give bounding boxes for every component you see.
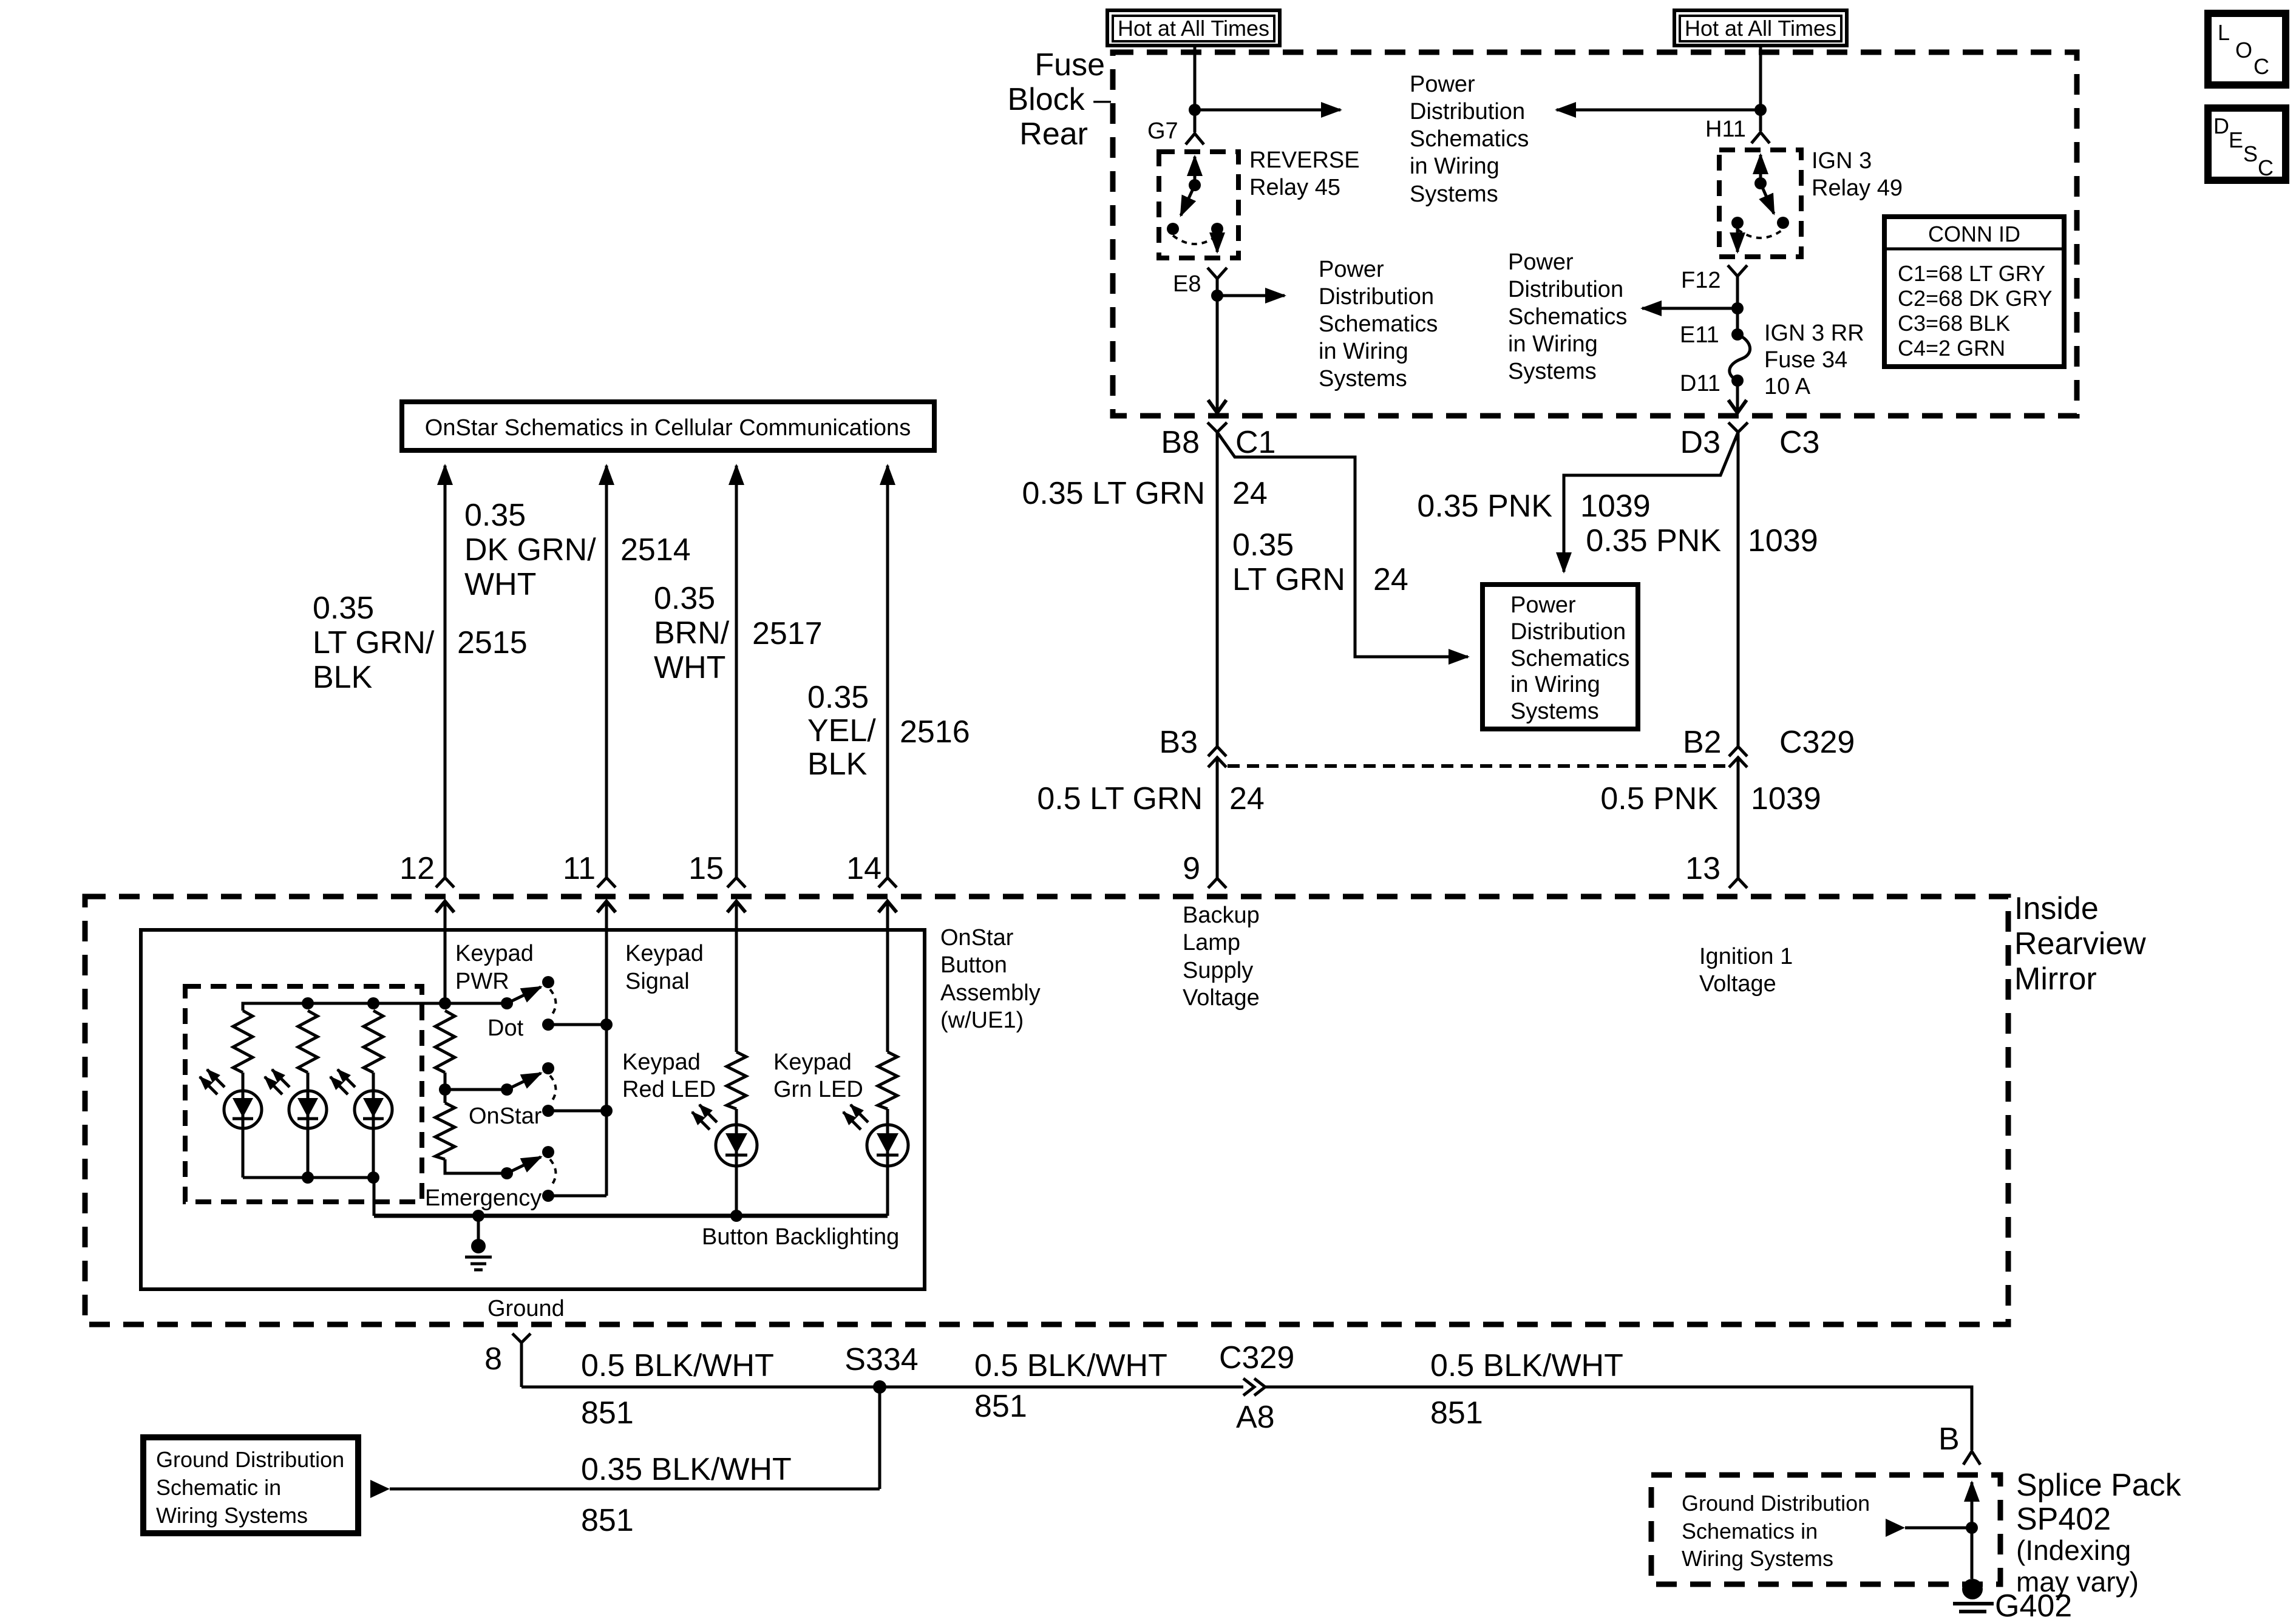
connector B (1963, 1451, 1980, 1465)
svg-text:10 A: 10 A (1764, 374, 1811, 399)
svg-text:Systems: Systems (1410, 181, 1498, 207)
svg-text:Inside: Inside (2014, 891, 2099, 926)
svg-text:G402: G402 (1995, 1588, 2072, 1617)
svg-text:15: 15 (688, 851, 724, 886)
svg-text:2514: 2514 (620, 532, 691, 568)
resistor (backlight LED 1) (233, 1011, 253, 1073)
wire label 0.35 BLK/WHT 851 (581, 1452, 792, 1538)
Backup Lamp Supply Voltage label (1183, 903, 1260, 1011)
switch Emergency: arm (507, 1157, 541, 1173)
Splice Pack SP402 dashed box (1651, 1475, 2000, 1584)
Power Distribution Schematics in Wiring Systems (below E8 arrow) (1319, 257, 1438, 392)
svg-text:1039: 1039 (1580, 489, 1651, 524)
svg-text:0.35: 0.35 (654, 581, 715, 616)
svg-text:BLK: BLK (313, 660, 373, 695)
svg-text:Block –: Block – (1007, 82, 1111, 117)
junction at E8 (1211, 290, 1223, 302)
svg-text:Wiring Systems: Wiring Systems (156, 1503, 308, 1528)
connector B3 (1208, 747, 1226, 767)
svg-text:OnStar: OnStar (469, 1103, 542, 1129)
wire label 0.35 PNK 1039 (D3 branch) (1417, 489, 1650, 524)
svg-text:1039: 1039 (1748, 523, 1818, 558)
switch Emergency: dashed throw arc (550, 1159, 556, 1187)
svg-text:0.35 PNK: 0.35 PNK (1586, 523, 1721, 558)
svg-text:Distribution: Distribution (1510, 619, 1626, 645)
junction in splice pack (1966, 1522, 1978, 1534)
svg-text:Power: Power (1508, 249, 1574, 275)
relay 49 dashed throw arc (1737, 229, 1783, 238)
wire: left feed from Hot at All Times (1194, 46, 1197, 132)
wire to OnStar tap (444, 1073, 447, 1103)
svg-text:0.5 BLK/WHT: 0.5 BLK/WHT (581, 1348, 774, 1383)
svg-text:YEL/: YEL/ (807, 713, 876, 748)
svg-text:Fuse: Fuse (1034, 47, 1105, 83)
svg-text:851: 851 (581, 1503, 634, 1538)
svg-text:2516: 2516 (900, 714, 970, 750)
arrow from Ground Distribution box (370, 1480, 880, 1498)
svg-text:C4=2 GRN: C4=2 GRN (1898, 336, 2005, 361)
svg-text:Schematics: Schematics (1508, 304, 1627, 330)
svg-text:C1: C1 (1235, 425, 1275, 460)
svg-text:SP402: SP402 (2016, 1502, 2111, 1537)
CONN ID table (1884, 217, 2064, 367)
svg-text:in Wiring: in Wiring (1510, 672, 1600, 697)
svg-text:Distribution: Distribution (1508, 277, 1623, 302)
wire label 0.5 BLK/WHT 851 (581, 1348, 774, 1431)
connector pin 15 (727, 878, 746, 887)
svg-text:REVERSE: REVERSE (1249, 147, 1360, 173)
svg-text:0.5 LT GRN: 0.5 LT GRN (1037, 781, 1203, 816)
svg-text:13: 13 (1685, 851, 1720, 886)
wire pin 11 into assembly (Keypad Signal) (605, 901, 608, 1196)
svg-text:1039: 1039 (1751, 781, 1821, 816)
svg-text:Signal: Signal (625, 969, 690, 994)
wire OnStar contact to signal bus (548, 1110, 606, 1113)
svg-text:Schematic in: Schematic in (156, 1475, 281, 1500)
switch Dot: arm (507, 987, 541, 1003)
LED grn emission arrows (843, 1105, 868, 1130)
LED 1 (224, 1073, 262, 1178)
relay REVERSE Relay 45 dashed box (1159, 152, 1238, 258)
svg-text:E11: E11 (1680, 322, 1719, 348)
svg-text:C3: C3 (1779, 425, 1819, 460)
svg-text:24: 24 (1373, 562, 1408, 597)
svg-text:0.35: 0.35 (807, 680, 869, 715)
svg-text:Keypad: Keypad (622, 1049, 701, 1075)
wire to Emergency switch (445, 1159, 507, 1173)
svg-text:0.35: 0.35 (313, 591, 374, 626)
svg-text:C: C (2254, 54, 2269, 79)
wire B3 down to pin 9 (1216, 758, 1219, 878)
svg-text:OnStar: OnStar (940, 925, 1014, 951)
Ignition 1 Voltage label (1699, 944, 1793, 997)
svg-text:Button: Button (940, 952, 1007, 978)
svg-text:B3: B3 (1159, 725, 1198, 760)
svg-text:B: B (1938, 1422, 1960, 1457)
svg-text:2515: 2515 (457, 625, 528, 660)
svg-text:IGN 3 RR: IGN 3 RR (1764, 320, 1864, 346)
switch Emergency: upper contact (542, 1146, 554, 1158)
fuse value label (1764, 320, 1864, 399)
wire pin 15 into assembly (Keypad Red LED) (735, 901, 738, 1052)
junction (439, 1083, 451, 1096)
Inside Rearview Mirror dashed outline (85, 897, 2008, 1324)
svg-text:C: C (2258, 155, 2274, 180)
svg-text:851: 851 (1430, 1395, 1483, 1431)
Power Distribution Schematics in Wiring Systems (right middle) (1508, 249, 1627, 384)
label Keypad Signal (625, 941, 704, 994)
label Keypad PWR (455, 941, 534, 994)
svg-text:Splice Pack: Splice Pack (2016, 1468, 2182, 1503)
switch Emergency: pivot dot (501, 1167, 513, 1179)
svg-text:Relay 49: Relay 49 (1812, 175, 1903, 201)
svg-text:D3: D3 (1680, 425, 1720, 460)
svg-text:Keypad: Keypad (455, 941, 534, 966)
svg-text:Distribution: Distribution (1410, 99, 1525, 124)
LED 3 emission arrows (330, 1070, 355, 1094)
svg-text:Power: Power (1319, 257, 1384, 282)
LED 2 (289, 1073, 327, 1178)
svg-text:0.35 LT GRN: 0.35 LT GRN (1022, 476, 1205, 511)
svg-text:Ground Distribution: Ground Distribution (156, 1447, 344, 1472)
svg-text:Assembly: Assembly (940, 980, 1041, 1006)
svg-text:9: 9 (1183, 851, 1200, 886)
label Splice Pack SP402 (Indexing may vary) (2016, 1468, 2182, 1598)
relay 45 output arrow (1216, 229, 1219, 252)
label Keypad Red LED (622, 1049, 716, 1102)
fuse IGN 3 RR Fuse 34 10 A (1730, 328, 1750, 387)
svg-text:Wiring Systems: Wiring Systems (1682, 1546, 1833, 1571)
connector pin 14 (878, 878, 897, 887)
relay 49 pivot dot (1754, 177, 1767, 189)
junction dots on top bus (302, 997, 314, 1009)
LED 2 emission arrows (265, 1070, 290, 1094)
arrow from Ground Distribution Schematics (1886, 1519, 1972, 1537)
label Keypad Grn LED (773, 1049, 863, 1102)
svg-text:C3=68 BLK: C3=68 BLK (1898, 311, 2010, 336)
wire label 0.35 DK GRN/ WHT (464, 498, 596, 602)
svg-text:Systems: Systems (1510, 699, 1599, 724)
switch OnStar: lower contact (542, 1105, 554, 1117)
svg-text:in Wiring: in Wiring (1410, 154, 1500, 179)
LED red (716, 1109, 757, 1216)
wire label 0.5 BLK/WHT 851 (1430, 1348, 1623, 1431)
junction (600, 1105, 613, 1117)
svg-text:LT GRN/: LT GRN/ (313, 625, 435, 660)
wire arrow to Power Distribution text (E8) (1217, 294, 1285, 297)
wire: right feed from Hot at All Times (1759, 46, 1762, 131)
ground bus wire (374, 1214, 888, 1218)
connector B8/C1 (1207, 422, 1227, 432)
junction dots on ground bus (472, 1210, 484, 1222)
ground wire 0.5 BLK/WHT (pin 8 to S334) (521, 1386, 1243, 1389)
svg-text:Mirror: Mirror (2014, 961, 2097, 997)
svg-text:Ground: Ground (487, 1296, 565, 1321)
svg-text:0.35: 0.35 (464, 498, 526, 533)
svg-text:0.5 PNK: 0.5 PNK (1600, 781, 1718, 816)
svg-text:S: S (2243, 141, 2258, 166)
connector E8 (1207, 268, 1227, 296)
switch Dot: lower contact (542, 1019, 554, 1031)
wire label 0.35 PNK 1039 (C3 wire) (1586, 523, 1818, 558)
ground wire 0.5 BLK/WHT (C329 to splice pack) (1265, 1387, 1972, 1450)
wire C1 branch to Power Distribution box (1217, 432, 1468, 657)
svg-text:CONN ID: CONN ID (1928, 222, 2020, 246)
junction dots on bottom bus (302, 1171, 314, 1184)
svg-text:WHT: WHT (464, 567, 536, 602)
wire E8 down to fuse block edge (1216, 296, 1219, 413)
svg-text:C329: C329 (1219, 1340, 1294, 1375)
svg-text:11: 11 (563, 851, 596, 886)
svg-text:D11: D11 (1680, 371, 1720, 396)
LED grn (867, 1109, 908, 1216)
connector G7 (1186, 134, 1204, 144)
label REVERSE Relay 45 (1249, 147, 1360, 200)
resistor (Keypad PWR lower) (435, 1103, 455, 1159)
wire B2 down to pin 13 (1737, 758, 1740, 878)
svg-text:E: E (2229, 127, 2243, 152)
junction (1189, 104, 1201, 116)
svg-text:BLK: BLK (807, 747, 868, 782)
svg-text:Schematics: Schematics (1410, 126, 1529, 152)
svg-text:Emergency: Emergency (425, 1185, 542, 1211)
svg-text:(w/UE1): (w/UE1) (940, 1008, 1024, 1033)
svg-text:F12: F12 (1681, 268, 1720, 293)
svg-text:C2=68 DK GRY: C2=68 DK GRY (1898, 286, 2052, 311)
svg-text:BRN/: BRN/ (654, 615, 730, 651)
wire label 0.5 PNK 1039 (1600, 781, 1821, 816)
svg-text:Button Backlighting: Button Backlighting (702, 1224, 899, 1250)
connector pin 12 (436, 878, 454, 887)
svg-text:(Indexing: (Indexing (2016, 1534, 2131, 1566)
svg-text:Lamp: Lamp (1183, 930, 1240, 955)
relay 45 pivot dot (1189, 179, 1201, 191)
svg-text:0.35: 0.35 (1232, 527, 1294, 563)
resistor (backlight LED 3) (364, 1011, 383, 1073)
svg-text:Ignition 1: Ignition 1 (1699, 944, 1793, 969)
svg-text:L: L (2218, 20, 2230, 45)
LED 3 (355, 1073, 392, 1178)
svg-text:in Wiring: in Wiring (1319, 339, 1408, 364)
wire arrow to Power Distribution text (pointing left, F12) (1642, 307, 1737, 310)
switch Dot: pivot dot (501, 997, 513, 1009)
svg-text:0.5 BLK/WHT: 0.5 BLK/WHT (1430, 1348, 1623, 1383)
junction (1754, 104, 1767, 116)
relay 49 input arrow (1759, 155, 1762, 182)
svg-text:Supply: Supply (1183, 958, 1253, 983)
relay IGN 3 Relay 49 dashed box (1719, 150, 1801, 257)
wire into splice pack (1971, 1482, 1974, 1579)
resistor (Keypad PWR upper) (435, 1011, 455, 1073)
Ground Distribution Schematic box (143, 1437, 358, 1533)
switch OnStar: upper contact (542, 1062, 554, 1074)
svg-text:WHT: WHT (654, 650, 725, 685)
svg-text:DK GRN/: DK GRN/ (464, 532, 596, 568)
connector pin 9 (1208, 878, 1226, 888)
svg-text:Voltage: Voltage (1699, 971, 1776, 997)
wire pin 14 into assembly (Keypad Grn LED) (886, 901, 889, 1052)
wire Emergency contact to signal bus (548, 1195, 606, 1198)
svg-text:0.5 BLK/WHT: 0.5 BLK/WHT (974, 1348, 1167, 1383)
relay 49 output arrow (1736, 223, 1739, 252)
label OnStar Button Assembly (w/UE1) (940, 925, 1041, 1033)
wire label 0.35 LT GRN/ BLK (313, 591, 435, 695)
relay 45 input arrow (1194, 157, 1197, 184)
svg-text:Keypad: Keypad (625, 941, 704, 966)
svg-text:851: 851 (581, 1395, 634, 1431)
LED red emission arrows (692, 1105, 717, 1130)
connector C329 inline (1243, 1378, 1265, 1395)
OnStar Button Assembly box (141, 930, 925, 1289)
wire tap to OnStar switch (445, 1088, 507, 1091)
wire label 0.5 LT GRN 24 (1037, 781, 1264, 816)
svg-text:Distribution: Distribution (1319, 284, 1434, 310)
Power Distribution Schematics in Wiring Systems (top center) (1410, 72, 1529, 207)
harness dashed link B3 to B2 (1228, 764, 1728, 768)
svg-text:12: 12 (399, 851, 435, 886)
DESC legend box (2208, 108, 2286, 180)
svg-text:H11: H11 (1705, 117, 1746, 142)
label Inside Rearview Mirror (2014, 891, 2146, 997)
svg-text:Hot at All Times: Hot at All Times (1118, 16, 1269, 41)
Hot at All Times box (left) (1107, 10, 1280, 46)
svg-text:0.35 BLK/WHT: 0.35 BLK/WHT (581, 1452, 792, 1487)
svg-text:Rearview: Rearview (2014, 926, 2146, 961)
svg-text:C329: C329 (1779, 725, 1855, 760)
svg-text:PWR: PWR (455, 969, 509, 994)
label IGN 3 Relay 49 (1812, 148, 1903, 201)
connector B2/C329 (1729, 747, 1747, 767)
svg-text:E8: E8 (1173, 271, 1201, 297)
svg-text:Grn LED: Grn LED (773, 1077, 863, 1102)
switch OnStar: arm (507, 1073, 541, 1090)
wire pin 12 into assembly (Keypad PWR) (444, 901, 447, 1003)
resistor (Keypad Red LED) (727, 1052, 746, 1109)
LOC legend box (2208, 13, 2286, 85)
svg-text:LT GRN: LT GRN (1232, 562, 1345, 597)
wire arrow to Power Distribution text (left) (1195, 109, 1340, 112)
svg-text:G7: G7 (1147, 118, 1178, 144)
wire pin 11 up to OnStar schematics (605, 466, 608, 878)
svg-text:Backup: Backup (1183, 903, 1260, 928)
relay 45 switch arm (1181, 185, 1195, 215)
svg-text:C1=68 LT GRY: C1=68 LT GRY (1898, 261, 2045, 286)
svg-text:Dot: Dot (487, 1015, 524, 1041)
svg-text:851: 851 (974, 1389, 1027, 1424)
svg-text:Ground Distribution: Ground Distribution (1682, 1491, 1870, 1516)
wire D3 branch to Power Distribution box (1564, 432, 1738, 572)
Fuse Block - Rear dashed outline (1113, 52, 2077, 416)
svg-text:Systems: Systems (1319, 366, 1407, 392)
relay 45 contact dots (1167, 223, 1179, 235)
wire pin 14 up to OnStar schematics (886, 466, 889, 878)
svg-text:D: D (2213, 114, 2229, 138)
wire C3 down to B2 (1737, 432, 1740, 747)
svg-text:0.35 PNK: 0.35 PNK (1417, 489, 1552, 524)
backlighting LED dashed box (185, 986, 422, 1202)
svg-text:Keypad: Keypad (773, 1049, 852, 1075)
connector D3/C3 (1728, 422, 1748, 432)
wire D11 down to fuse block edge (1736, 381, 1739, 413)
switch OnStar: pivot dot (501, 1083, 513, 1096)
svg-text:8: 8 (484, 1341, 502, 1377)
connector pin 8 (512, 1334, 531, 1387)
internal ground symbol (465, 1216, 492, 1270)
svg-text:2517: 2517 (752, 616, 823, 651)
wire arrow to Power Distribution text (pointing left) (1557, 109, 1761, 112)
svg-text:B8: B8 (1161, 425, 1200, 460)
svg-text:Hot at All Times: Hot at All Times (1685, 16, 1836, 41)
relay 49 contact dots (1731, 217, 1744, 229)
label Fuse Block - Rear (1007, 47, 1111, 152)
svg-text:S334: S334 (844, 1342, 918, 1377)
svg-text:Rear: Rear (1019, 117, 1088, 152)
Hot at All Times box (right) (1674, 10, 1847, 46)
wire label 0.35 BRN/ WHT (654, 581, 730, 685)
wire label 0.35 LT GRN 24 (1022, 476, 1267, 511)
switch Dot: dashed throw arc (550, 989, 556, 1017)
junction at F12 (1731, 302, 1744, 314)
svg-text:OnStar Schematics in Cellular: OnStar Schematics in Cellular Communicat… (425, 415, 911, 441)
svg-text:Fuse 34: Fuse 34 (1764, 347, 1847, 373)
svg-text:Red LED: Red LED (622, 1077, 716, 1102)
resistor (Keypad Grn LED) (878, 1052, 897, 1109)
switch OnStar: dashed throw arc (550, 1076, 556, 1103)
wire Dot contact to signal bus (548, 1023, 606, 1026)
wire S334 down to 0.35 BLK/WHT (878, 1387, 881, 1489)
relay 49 switch arm (1761, 183, 1774, 214)
wire B8 down to B3 (1216, 432, 1219, 747)
svg-text:Power: Power (1510, 592, 1576, 618)
svg-text:Schematics: Schematics (1510, 646, 1629, 671)
resistor (backlight LED 2) (298, 1011, 318, 1073)
Power Distribution Schematics box (1483, 585, 1638, 729)
svg-text:O: O (2235, 38, 2252, 63)
wire label 0.35 YEL/ BLK (807, 680, 876, 782)
connector H11 (1751, 132, 1770, 143)
svg-text:B2: B2 (1683, 725, 1722, 760)
svg-text:Voltage: Voltage (1183, 985, 1260, 1011)
wire pin 12 up to OnStar schematics (444, 466, 447, 878)
connector F12 (1728, 265, 1747, 308)
switch Dot: upper contact (542, 976, 554, 988)
wire label 0.5 BLK/WHT 851 (middle) (974, 1348, 1167, 1424)
svg-text:Systems: Systems (1508, 359, 1597, 384)
svg-text:14: 14 (846, 851, 881, 886)
svg-text:Schematics in: Schematics in (1682, 1519, 1818, 1544)
connector pin 11 (597, 878, 616, 887)
wire pin 15 up to OnStar schematics (735, 466, 738, 878)
svg-text:24: 24 (1229, 781, 1265, 816)
wire label 0.35 LT GRN 24 (C1 branch) (1232, 527, 1408, 597)
junction (600, 1019, 613, 1031)
label Ground Distribution Schematics in Wiring Systems (1682, 1491, 1870, 1571)
svg-text:24: 24 (1232, 476, 1268, 511)
svg-text:Schematics: Schematics (1319, 311, 1438, 337)
OnStar Schematics in Cellular Communications box (402, 402, 934, 450)
wire F12 to E11 (1736, 308, 1739, 334)
top bus wire (243, 1003, 507, 1011)
svg-text:in Wiring: in Wiring (1508, 331, 1598, 357)
svg-text:A8: A8 (1236, 1400, 1275, 1435)
splice S334 (873, 1380, 886, 1394)
svg-text:Power: Power (1410, 72, 1475, 97)
ground G402 (1953, 1579, 1994, 1617)
LED 1 emission arrows (200, 1070, 225, 1094)
svg-text:Relay 45: Relay 45 (1249, 175, 1340, 200)
switch Emergency: lower contact (542, 1190, 554, 1202)
connector pin 13 (1729, 878, 1747, 888)
